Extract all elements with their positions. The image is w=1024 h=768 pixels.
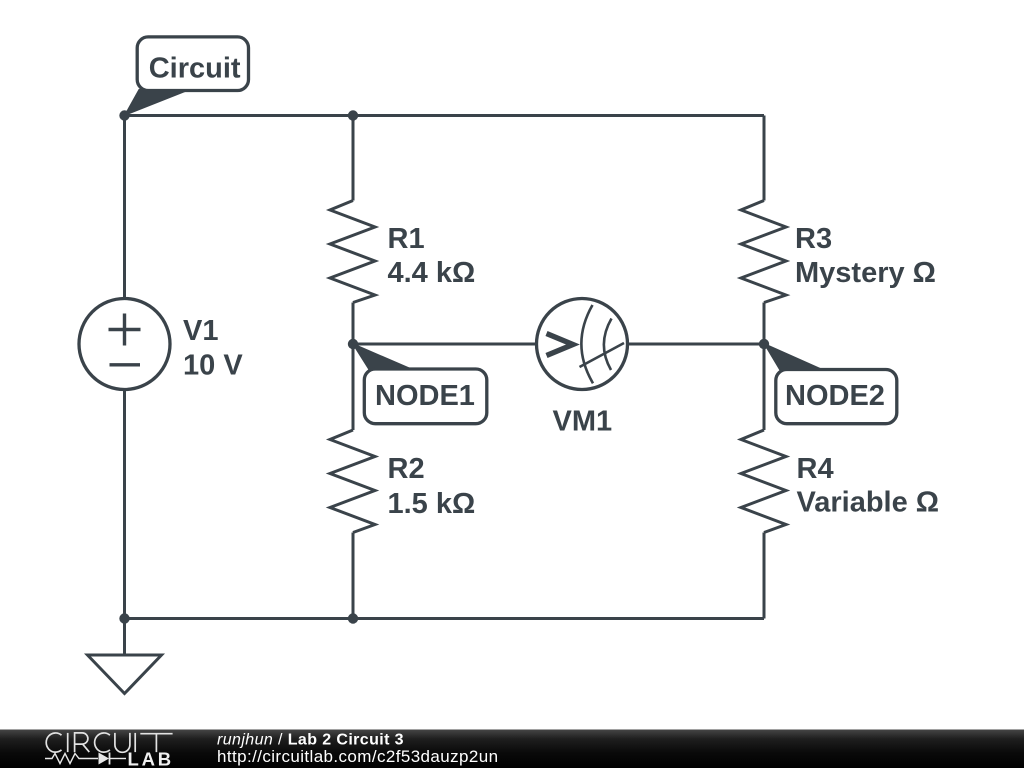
svg-text:Variable Ω: Variable Ω: [797, 487, 940, 519]
NODE2 balloon pointer: [764, 344, 828, 373]
svg-text:R2: R2: [388, 453, 425, 485]
resistor R4: [741, 430, 939, 533]
svg-text:LAB: LAB: [128, 749, 174, 768]
wire voltmeter VM1 to NODE2: [627, 343, 764, 346]
svg-text:runjhun / Lab 2 Circuit 3: runjhun / Lab 2 Circuit 3: [217, 732, 404, 749]
svg-text:R1: R1: [388, 223, 425, 255]
Circuit balloon pointer: [125, 90, 191, 116]
wire R1 to NODE1: [352, 303, 355, 345]
wire R2 to bottom rail: [352, 533, 355, 619]
svg-text:NODE1: NODE1: [375, 380, 475, 412]
wire R4 to bottom rail: [763, 533, 766, 619]
node NODE1 dot: [348, 339, 358, 349]
voltage source V1: [79, 299, 243, 390]
node A dot (top-left corner): [119, 110, 129, 120]
wire bottom rail: [125, 617, 765, 620]
wire top rail from node A to R3 branch: [125, 114, 765, 117]
wire NODE2 to R4: [763, 344, 766, 430]
footer bar: [0, 730, 1024, 768]
wire left branch lower (V1 bottom to bottom rail): [123, 389, 126, 619]
resistor R2: [330, 430, 475, 533]
node NODE2 dot: [759, 339, 769, 349]
svg-text:Circuit: Circuit: [149, 53, 241, 85]
ground: [88, 619, 162, 694]
voltmeter VM1: [537, 299, 628, 438]
wire middle branch top (rail to R1): [352, 116, 355, 201]
wire right branch top (rail to R3): [763, 116, 766, 201]
wire NODE1 to R2: [352, 344, 355, 430]
footer logo schematic squiggle (resistor + diode): [45, 753, 126, 765]
Circuit balloon: [137, 37, 248, 91]
resistor R1: [330, 201, 475, 303]
svg-text:R3: R3: [795, 223, 832, 255]
junction dot bottom rail / middle branch: [348, 613, 358, 623]
wire NODE1 to voltmeter VM1: [353, 343, 537, 346]
footer logo CIRCUIT (skeleton line letters): [46, 733, 172, 752]
svg-text:http://circuitlab.com/c2f53dau: http://circuitlab.com/c2f53dauzp2un: [217, 747, 498, 766]
svg-text:1.5 kΩ: 1.5 kΩ: [388, 488, 476, 520]
NODE1 balloon pointer: [353, 344, 416, 371]
svg-text:VM1: VM1: [553, 406, 613, 438]
svg-text:10 V: 10 V: [183, 350, 243, 382]
junction dot bottom rail / ground: [119, 613, 129, 623]
svg-text:Mystery Ω: Mystery Ω: [795, 257, 936, 289]
svg-text:R4: R4: [797, 453, 834, 485]
wire left branch upper (node A to V1 top): [123, 116, 126, 300]
NODE2 balloon: [776, 370, 897, 424]
junction dot top rail / middle branch: [348, 110, 358, 120]
resistor R3: [741, 201, 936, 303]
svg-text:V1: V1: [183, 315, 218, 347]
wire R3 to NODE2: [763, 303, 766, 345]
svg-text:4.4 kΩ: 4.4 kΩ: [388, 257, 476, 289]
NODE1 balloon: [364, 369, 487, 424]
svg-text:NODE2: NODE2: [785, 380, 885, 412]
